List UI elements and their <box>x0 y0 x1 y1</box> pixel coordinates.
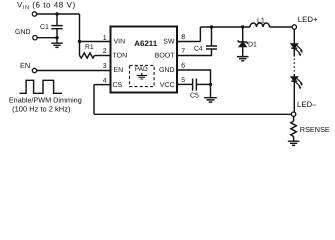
svg-text:GND: GND <box>15 29 31 36</box>
svg-text:VCC: VCC <box>160 82 175 89</box>
node VIN terminal <box>32 12 36 16</box>
wire R1 to pin 2 TON <box>95 55 111 57</box>
svg-text:5: 5 <box>181 77 185 84</box>
svg-text:1: 1 <box>103 35 107 42</box>
node LED+ terminal <box>292 25 296 29</box>
wire C4 top lead <box>211 27 213 46</box>
wire CS pin 4 to down corner <box>94 84 111 86</box>
svg-text:LED–: LED– <box>297 100 317 109</box>
svg-text:7: 7 <box>181 48 185 55</box>
wire GND terminal to C1 node <box>37 37 57 39</box>
wire C4 bottom lead to BOOT pin 7 <box>177 49 212 56</box>
wire GND pin 6 out <box>177 70 211 84</box>
wire LED1 to dots <box>293 48 295 56</box>
wire to pin 1 VIN <box>80 41 111 43</box>
resistor RSENSE <box>291 121 297 137</box>
node SW/C4 junction <box>210 25 213 28</box>
wire C5 to ground node <box>197 83 211 85</box>
node EN terminal <box>32 68 36 72</box>
wire down to R1 <box>79 42 81 56</box>
svg-text:(100 Hz to 2 kHz): (100 Hz to 2 kHz) <box>12 105 71 114</box>
wire SW pin 8 out <box>177 41 200 43</box>
wire D1 top lead <box>242 27 244 42</box>
wire VCC pin 5 to C5 <box>177 83 192 85</box>
svg-text:BOOT: BOOT <box>155 53 176 60</box>
LED D3 arrows <box>295 79 302 87</box>
ground (VCC) <box>204 84 217 102</box>
svg-text:8: 8 <box>181 34 185 41</box>
svg-text:R1: R1 <box>85 44 94 51</box>
capacitor C1 <box>51 26 62 29</box>
svg-text:RSENSE: RSENSE <box>300 125 330 134</box>
dotted line between LEDs <box>293 59 295 75</box>
svg-text:6: 6 <box>181 62 185 69</box>
capacitor C5 <box>193 79 197 91</box>
wire SW up to rail <box>199 27 201 42</box>
svg-text:Enable/PWM Dimming: Enable/PWM Dimming <box>9 96 82 105</box>
wire VIN terminal to corner <box>37 13 80 15</box>
diode D1 schottky cathode bar <box>238 40 247 44</box>
ground (input) <box>51 38 63 48</box>
node VIN/R1 junction <box>78 40 81 43</box>
wire D1 bottom lead <box>242 47 244 57</box>
resistor R1 <box>80 53 95 58</box>
wire SW rail to LED+ <box>200 26 250 28</box>
svg-text:VIN: VIN <box>114 39 126 46</box>
inductor L1 <box>250 23 270 27</box>
capacitor C4 <box>206 46 217 49</box>
ground (RSENSE) <box>288 141 300 145</box>
wire LED2 to LED- terminal <box>293 81 295 112</box>
wire L1 to LED+ terminal <box>270 26 293 28</box>
svg-text:4: 4 <box>103 78 107 85</box>
svg-text:2: 2 <box>103 48 107 55</box>
PWM waveform symbol <box>20 80 63 93</box>
wire CS vertical <box>93 85 95 115</box>
node VCC/C5/GND junction <box>209 83 212 86</box>
ground (PAD) <box>137 73 147 79</box>
wire LED- to RSENSE <box>293 116 295 121</box>
LED D3 triangle <box>291 77 297 81</box>
svg-text:C4: C4 <box>194 46 203 53</box>
wire VIN vertical drop <box>79 14 81 42</box>
svg-text:CS: CS <box>113 82 123 89</box>
wire bottom sense rail <box>94 113 291 115</box>
svg-text:LED+: LED+ <box>298 15 318 24</box>
svg-text:L1: L1 <box>257 18 265 25</box>
svg-text:PAD: PAD <box>135 66 148 73</box>
junction dots <box>55 12 244 86</box>
svg-text:SW: SW <box>163 39 175 46</box>
LED D3 cathode bar <box>291 80 297 82</box>
svg-text:D1: D1 <box>248 41 257 48</box>
svg-text:EN: EN <box>114 67 124 74</box>
node VIN/C1 junction <box>55 12 58 15</box>
LED D2 cathode bar <box>291 47 297 49</box>
svg-text:3: 3 <box>103 63 107 70</box>
wire C1 top lead <box>56 14 58 25</box>
svg-text:C5: C5 <box>190 93 199 100</box>
diode D1 triangle <box>239 42 246 46</box>
svg-text:C1: C1 <box>40 24 49 31</box>
ground (D1) <box>237 57 249 61</box>
svg-text:EN: EN <box>20 61 30 70</box>
node GND/C1 junction <box>55 36 58 39</box>
svg-text:TON: TON <box>113 53 128 60</box>
LED D2 triangle <box>291 44 297 48</box>
wire EN to pin 3 <box>37 70 111 72</box>
LED D2 arrows <box>295 46 302 54</box>
wire dots to LED2 <box>293 74 295 77</box>
wire LED+ down to LED1 <box>293 29 295 44</box>
op-amp style chip body A6211 <box>111 27 178 93</box>
svg-text:GND: GND <box>159 67 175 74</box>
svg-text:A6211: A6211 <box>134 39 157 48</box>
node SW/D1 junction <box>241 25 244 28</box>
node GND terminal <box>33 36 37 40</box>
PAD exposed pad dashed box <box>130 65 155 86</box>
terminal circles <box>32 12 296 117</box>
wire RSENSE to ground <box>293 137 295 141</box>
wire C1 bottom lead <box>56 29 58 38</box>
node LED- terminal <box>291 112 295 116</box>
